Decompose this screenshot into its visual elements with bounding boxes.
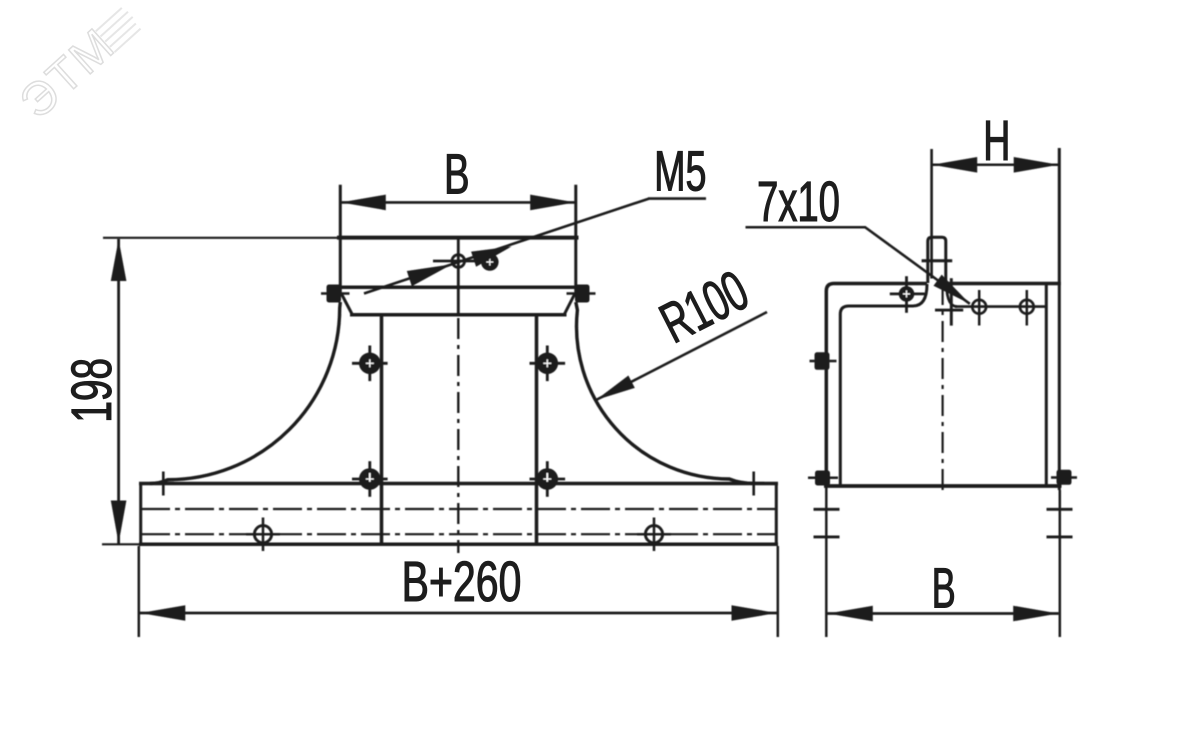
M5 tapped hole circle xyxy=(452,255,465,268)
cap left side + B extension line xyxy=(339,185,342,296)
base hole left xyxy=(246,518,280,552)
extension cross ticks right xyxy=(1047,508,1073,511)
top wall filled hole xyxy=(890,276,925,313)
tab (stud) on top xyxy=(928,237,946,283)
base plate top edge xyxy=(139,482,778,486)
base hole right xyxy=(637,518,671,552)
slot center cross xyxy=(950,278,953,325)
tab cross tick xyxy=(922,259,953,262)
front vertical centerline solid part through cap xyxy=(457,238,460,315)
H left extension line xyxy=(930,149,933,279)
left R100 curve xyxy=(150,302,340,484)
M5 leader line xyxy=(364,199,649,294)
text 7x10 xyxy=(759,181,838,221)
web hole top-left xyxy=(352,346,388,382)
B+260 right extension line xyxy=(777,546,780,637)
right R100 curve xyxy=(576,302,755,484)
base dash-dot centerline upper xyxy=(141,508,776,510)
cap right side + B extension line xyxy=(574,185,577,296)
cap right bolt xyxy=(575,285,590,303)
B left extension line xyxy=(825,486,828,637)
side bolt bottom-left xyxy=(815,471,830,486)
base plate left edge xyxy=(139,482,142,546)
text R100 xyxy=(658,269,751,343)
box inner left line and inner top line with fillets xyxy=(840,284,927,485)
H right arrow xyxy=(1014,157,1059,173)
front vertical centerline dash-dot xyxy=(457,318,459,553)
198 top reference line xyxy=(103,237,338,239)
7x10 underline xyxy=(746,226,867,229)
cap left bolt xyxy=(327,285,342,303)
slot hole 2 xyxy=(1020,290,1034,326)
B side right arrow xyxy=(1013,606,1058,622)
text 198 xyxy=(71,360,111,420)
M5 leader arrow 1 xyxy=(407,264,452,286)
M5 second hole filled xyxy=(481,253,499,271)
B+260 right arrow xyxy=(732,605,777,621)
inner fillet right of tab xyxy=(947,285,958,307)
B+260 left arrow xyxy=(140,605,185,621)
198 dimension vertical line xyxy=(117,239,120,544)
B+260 left extension line xyxy=(138,546,141,637)
M5 leader shelf xyxy=(648,197,706,200)
text B front xyxy=(447,154,467,193)
198 top arrow xyxy=(111,239,127,281)
box bottom edge xyxy=(824,484,1062,488)
cap trapezoid bottom line xyxy=(350,313,567,317)
cap top edge xyxy=(337,236,579,240)
text M5 xyxy=(657,151,705,191)
box outer top edge right part xyxy=(947,282,1061,286)
base dash-dot centerline lower xyxy=(141,533,776,535)
box outer right edge + H extension xyxy=(1058,148,1061,490)
base plate bottom edge xyxy=(139,543,778,547)
B+260 dimension line xyxy=(140,612,777,615)
web hole bottom-right xyxy=(530,461,566,497)
B side left arrow xyxy=(828,606,873,622)
M5 hole cross arm xyxy=(433,260,483,263)
web hole top-right xyxy=(530,346,566,382)
text B side xyxy=(935,568,954,607)
B right extension line xyxy=(1059,490,1062,637)
web hole bottom-left xyxy=(352,461,388,497)
dimension B line with arrows xyxy=(341,201,575,204)
H dimension line xyxy=(932,164,1059,167)
left web line xyxy=(380,316,384,543)
watermark ETM logo xyxy=(9,0,149,128)
R100 leader line xyxy=(596,312,767,400)
side view centerline xyxy=(941,284,943,496)
right web line xyxy=(535,316,539,543)
extension cross ticks left xyxy=(814,508,840,511)
7x10 leader line xyxy=(866,228,948,288)
M5 leader arrow 2 xyxy=(471,247,511,267)
box outer left edge and rounded top-left corner xyxy=(826,284,927,487)
slot hole 1 xyxy=(972,290,986,326)
198 bottom arrow xyxy=(111,501,127,544)
cap trapezoid right bevel xyxy=(564,293,575,315)
B dimension line side view xyxy=(828,612,1059,615)
7x10 leader arrow xyxy=(934,275,970,304)
base corner cross right xyxy=(743,482,764,485)
side bolt mid-left xyxy=(815,352,830,370)
cap trapezoid left bevel xyxy=(341,293,353,315)
box inner right line xyxy=(1045,284,1048,485)
holes center line xyxy=(955,305,1046,308)
base corner cross left xyxy=(153,482,174,485)
text B+260 xyxy=(405,561,520,601)
text H xyxy=(986,121,1007,160)
H left arrow xyxy=(932,157,977,173)
R100 leader arrow xyxy=(596,376,635,401)
side bolt bottom-right xyxy=(1057,470,1072,485)
198 bottom reference line xyxy=(102,543,141,545)
cap lower horizontal line xyxy=(339,286,578,290)
base plate right edge xyxy=(775,482,778,546)
